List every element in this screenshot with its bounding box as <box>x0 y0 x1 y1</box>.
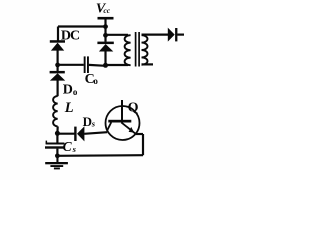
transistor Q emitter with arrow <box>121 122 136 133</box>
diode D1 (top left) <box>50 40 65 50</box>
node Vcc/rail <box>103 24 108 29</box>
wire secondary bottom lead <box>142 63 154 65</box>
wire C_o left lead <box>58 64 84 66</box>
svg-text:C: C <box>63 139 73 154</box>
transformer T1 core <box>136 32 140 67</box>
transistor Q circle <box>106 106 140 140</box>
wire node to Ds <box>57 133 74 135</box>
node Co/primary bottom <box>103 63 108 68</box>
wire left vertical top <box>57 27 59 41</box>
wire primary top lead <box>106 34 129 36</box>
svg-text:o: o <box>93 76 98 86</box>
wire Cs to bottom rail <box>56 149 58 156</box>
wire inductor to node <box>56 126 58 133</box>
node L/Ds/Cs <box>55 131 60 136</box>
node primary top <box>103 33 108 38</box>
svg-text:o: o <box>73 87 78 97</box>
transistor Q base bar <box>108 120 131 123</box>
ground <box>45 156 68 170</box>
wire Ds to transistor base <box>84 132 107 134</box>
wire between diode D3 and node <box>104 51 106 66</box>
node left between diodes <box>55 63 60 68</box>
wire between left diodes <box>56 50 58 71</box>
svg-text:s: s <box>91 119 96 129</box>
svg-text:cc: cc <box>103 6 110 15</box>
wire node to Cs <box>56 133 58 142</box>
capacitor Co plates <box>84 56 89 73</box>
wire bottom rail <box>57 154 143 157</box>
node junction dots <box>55 24 108 158</box>
transformer T1 primary winding <box>125 35 131 65</box>
wire diode D2 to inductor <box>56 80 58 96</box>
wire Vcc stem <box>104 18 106 26</box>
wire C_o right lead <box>89 64 106 67</box>
diode D3 (Vcc branch) <box>97 42 113 52</box>
wire top rail <box>58 25 106 27</box>
svg-text:s: s <box>72 144 77 154</box>
svg-text:D: D <box>83 114 92 129</box>
capacitor Cs plates <box>45 141 65 149</box>
diode D2 (below D1) <box>50 71 66 81</box>
wire secondary top lead <box>142 33 169 35</box>
wire primary bottom lead <box>106 64 129 66</box>
node bottom rail/ground <box>55 153 60 158</box>
inductor L coil <box>53 96 58 126</box>
diode D4 (output, top right) <box>168 28 178 42</box>
svg-text:D: D <box>63 83 73 98</box>
wire emitter to right corner <box>136 133 143 135</box>
Vcc supply bar <box>98 17 114 20</box>
svg-text:DC: DC <box>61 29 80 44</box>
transistor Q base internal lead <box>107 122 111 130</box>
diode Ds (base drive) <box>74 126 84 141</box>
transistor Q collector lead <box>121 100 123 120</box>
wire diode D4 output stub <box>177 33 184 35</box>
wire emitter return right side <box>142 134 144 155</box>
svg-text:L: L <box>64 100 74 116</box>
svg-text:Q: Q <box>128 101 139 116</box>
wire Vcc branch vertical upper <box>104 27 106 42</box>
transformer T1 secondary winding <box>142 35 148 65</box>
